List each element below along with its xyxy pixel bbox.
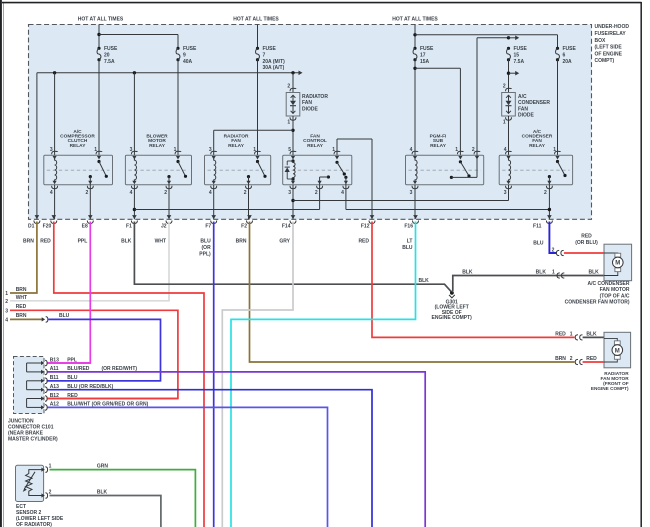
bus wire from fuse block <box>37 71 303 76</box>
wire BRN node 4 <box>5 313 43 323</box>
a/c condenser fan diode <box>502 88 516 120</box>
svg-text:40A: 40A <box>183 59 193 65</box>
radiator fan motor <box>604 332 631 368</box>
wire: bus to radiator fan diode pin 2 <box>287 73 293 93</box>
svg-text:1: 1 <box>49 463 52 469</box>
wire RED stub to radiator fan motor <box>583 361 604 363</box>
svg-text:BOX: BOX <box>595 38 607 44</box>
relay switch <box>317 151 349 188</box>
svg-text:1: 1 <box>287 120 290 126</box>
connector F7 at fuse box edge <box>205 215 216 230</box>
wire: relay pin 4 to F20 <box>54 185 56 220</box>
svg-text:A/C: A/C <box>518 94 527 100</box>
connector 1 on radiator fan motor feed <box>555 331 597 340</box>
radiator fan relay <box>205 155 271 184</box>
wire B11 BLU <box>48 380 161 382</box>
hot at all times label 1 <box>78 16 124 22</box>
wire RED from F20 down off page <box>40 222 204 527</box>
wire WHT from J2 to node 2 <box>10 222 169 301</box>
svg-text:M: M <box>615 261 620 267</box>
svg-text:2: 2 <box>287 83 290 89</box>
svg-text:BLU: BLU <box>402 245 413 251</box>
svg-text:7.5A: 7.5A <box>104 59 115 65</box>
svg-text:BRN: BRN <box>16 287 27 293</box>
svg-text:7.5A: 7.5A <box>514 59 525 65</box>
svg-text:2: 2 <box>5 299 8 305</box>
wire BLK from a/c condenser fan motor to ground <box>452 269 604 292</box>
wire BLU from node 4 connector to junction connector B11 <box>47 313 161 381</box>
svg-text:F16: F16 <box>404 224 413 230</box>
fuse 15 <box>507 46 528 65</box>
svg-text:4: 4 <box>5 318 8 324</box>
svg-text:FAN: FAN <box>518 106 528 112</box>
pgm-fi sub relay <box>406 155 484 184</box>
relay pin numbers 4/2 bottom <box>50 190 89 196</box>
junction connector internal link B13-A11 <box>27 363 42 372</box>
radiator fan diode <box>286 88 300 120</box>
svg-text:4: 4 <box>130 190 133 196</box>
relay pin numbers 3/1 top <box>130 147 177 153</box>
svg-text:RELAY: RELAY <box>149 143 166 149</box>
svg-text:DIODE: DIODE <box>302 106 319 112</box>
a/c condenser fan diode label <box>518 94 550 119</box>
relay switch <box>87 151 108 188</box>
relay pin numbers 4/2 bottom <box>209 190 247 196</box>
svg-text:2: 2 <box>164 190 167 196</box>
svg-text:CONDENSER: CONDENSER <box>518 100 550 106</box>
relay pin numbers 4/1/2 top <box>410 147 475 153</box>
relay pin numbers 3/1 top <box>50 147 97 153</box>
wire: relay pin 4 to F7 <box>213 185 215 220</box>
svg-text:1: 1 <box>552 269 555 275</box>
svg-text:PPL): PPL) <box>199 251 211 257</box>
relay coil <box>211 151 217 188</box>
ECT sensor pin 2 label <box>49 489 52 495</box>
svg-text:RELAY: RELAY <box>228 143 245 149</box>
ECT sensor 2 <box>16 465 48 501</box>
wire LT BLU from F16 down off page <box>231 222 416 527</box>
relay switch <box>246 151 267 188</box>
svg-text:30A (A/T): 30A (A/T) <box>263 65 285 71</box>
wire: relay pin 3 to F16 <box>414 185 416 220</box>
junction connector terminal B11 <box>41 375 78 384</box>
relay pin number 3 bottom <box>410 190 413 196</box>
wire: relay pin 4 to F11 junction <box>346 185 550 210</box>
a/c compressor clutch relay label <box>60 129 95 149</box>
connector F14 at fuse box edge <box>282 215 296 230</box>
node 3 label <box>5 304 26 314</box>
wire BLK stub to radiator fan motor <box>583 336 604 338</box>
connector F16 at fuse box edge <box>404 215 418 230</box>
svg-text:F11: F11 <box>533 224 542 230</box>
svg-text:1: 1 <box>570 331 573 337</box>
svg-text:M: M <box>615 348 620 354</box>
junction connector internal link B12-A12 <box>27 399 42 408</box>
wire: relay pin 2 to E8 <box>89 185 91 220</box>
wire PPL from E8 to junction connector B13 <box>47 222 91 364</box>
relay coil <box>412 151 418 188</box>
svg-text:2: 2 <box>503 83 506 89</box>
svg-text:FUSE: FUSE <box>514 46 528 52</box>
svg-text:GRY: GRY <box>279 239 290 245</box>
connector F2 at fuse box edge <box>241 215 252 230</box>
wire: fuse 15 to a/c condenser fan diode pin 2 <box>503 83 506 89</box>
wire BLU (OR PPL) from F7 down off page <box>199 222 213 527</box>
ECT sensor pin 1 label <box>49 463 52 469</box>
wire A12 BLU/WHT off page <box>48 407 328 527</box>
radiator fan diode label <box>302 94 328 112</box>
svg-text:4: 4 <box>341 190 344 196</box>
svg-text:BLK: BLK <box>586 331 597 337</box>
radiator fan motor label <box>591 371 629 391</box>
svg-text:BRN: BRN <box>16 313 27 319</box>
wire A13 BLU off page <box>48 390 373 527</box>
svg-text:FAN MOTOR: FAN MOTOR <box>600 287 630 293</box>
under-hood fuse/relay box label <box>595 24 630 64</box>
relay coil and diode <box>285 151 296 188</box>
svg-text:2: 2 <box>86 190 89 196</box>
svg-text:CONDENSER FAN MOTOR): CONDENSER FAN MOTOR) <box>565 300 630 306</box>
wire: fuse 7 output to radiator fan relay pin 1 <box>257 60 259 155</box>
svg-text:BRN: BRN <box>236 239 247 245</box>
wire BRN from F2 to radiator fan motor <box>236 222 575 363</box>
connector F12 at fuse box edge <box>361 215 375 230</box>
svg-text:WHT: WHT <box>16 295 27 301</box>
under-hood fuse/relay box (dashed) <box>29 25 592 220</box>
connector 2 on a/c condenser fan motor feed <box>552 248 564 256</box>
svg-text:F14: F14 <box>282 224 291 230</box>
connector F1 at fuse box edge <box>126 215 137 230</box>
svg-text:BLK: BLK <box>536 269 547 275</box>
connector F11 at fuse box edge <box>533 215 552 230</box>
svg-text:4: 4 <box>410 147 413 153</box>
svg-text:RED: RED <box>40 239 51 245</box>
svg-text:F1: F1 <box>126 224 132 230</box>
fuse 20 <box>97 46 118 65</box>
svg-text:BLU: BLU <box>200 239 211 245</box>
svg-text:3: 3 <box>288 190 291 196</box>
svg-text:17: 17 <box>420 52 426 58</box>
junction connector terminal A11 <box>41 366 137 375</box>
svg-text:4: 4 <box>209 190 212 196</box>
ECT sensor 2 label <box>16 504 64 527</box>
wire: relay pin 3 to F14 junction <box>293 185 509 201</box>
wire: pgm-fi sub relay pin 2 to fuse 15 <box>477 36 519 156</box>
svg-text:HOT AT ALL TIMES: HOT AT ALL TIMES <box>78 16 124 22</box>
svg-text:BLU: BLU <box>533 240 544 246</box>
ground G301 label <box>432 299 473 321</box>
wire BLU from F11 to a/c condenser fan motor connector <box>533 222 556 254</box>
svg-text:OF ENGINE: OF ENGINE <box>595 51 623 57</box>
relay pin numbers 5/1 top <box>288 147 335 153</box>
svg-text:20A (M/T): 20A (M/T) <box>263 59 286 65</box>
svg-text:3: 3 <box>410 190 413 196</box>
svg-text:F12: F12 <box>361 224 370 230</box>
relay coil <box>52 151 58 188</box>
svg-text:2: 2 <box>49 489 52 495</box>
wire: hot feed 1 to fuses 20/9 <box>97 25 178 48</box>
svg-text:F7: F7 <box>205 224 211 230</box>
fuse 6 <box>556 46 577 65</box>
junction connector terminal A12 <box>41 402 149 411</box>
svg-text:WHT: WHT <box>155 239 166 245</box>
svg-text:4: 4 <box>50 190 53 196</box>
svg-text:3: 3 <box>5 309 8 315</box>
ground G301 <box>449 291 455 298</box>
svg-text:1: 1 <box>5 291 8 297</box>
svg-text:LT: LT <box>407 239 413 245</box>
wire B12 RED <box>48 398 178 400</box>
svg-text:PPL: PPL <box>78 239 88 245</box>
svg-text:FAN: FAN <box>302 100 312 106</box>
svg-text:BLK: BLK <box>588 269 599 275</box>
wire A11 BLU/RED off page <box>48 372 426 527</box>
a/c condenser fan relay <box>499 155 572 184</box>
svg-text:FUSE: FUSE <box>563 46 577 52</box>
svg-text:BLK: BLK <box>97 489 108 495</box>
connector J2 at fuse box edge <box>161 215 172 230</box>
svg-text:2: 2 <box>244 190 247 196</box>
svg-text:GRN: GRN <box>97 463 109 469</box>
wire: fuse 6 output to a/c condenser fan relay pin 1 <box>557 60 559 155</box>
svg-text:RED: RED <box>555 331 566 337</box>
junction connector internal link B11-A13 <box>27 381 42 390</box>
fuse 9 <box>176 46 197 65</box>
wire: relay pin 2 to F2 <box>248 185 250 220</box>
junction connector C101 (dashed) <box>14 357 45 414</box>
relay coil <box>506 151 512 188</box>
wire B13 PPL <box>48 362 91 364</box>
relay switch <box>166 151 187 188</box>
junction connector terminal B12 <box>41 393 78 402</box>
svg-text:20: 20 <box>104 52 110 58</box>
svg-text:ECT: ECT <box>16 504 26 510</box>
relay pin numbers 3/2 bottom <box>504 190 547 196</box>
svg-text:(OR BLU): (OR BLU) <box>575 240 598 246</box>
wire: fan control relay pin 1 to F12 <box>337 139 372 219</box>
svg-text:E8: E8 <box>82 224 88 230</box>
svg-text:3: 3 <box>504 190 507 196</box>
wire: fuse 15 output / branch arrow <box>507 60 519 93</box>
svg-text:2: 2 <box>552 248 555 254</box>
svg-text:(OR: (OR <box>202 245 212 251</box>
connector on node 4 wire <box>42 317 48 323</box>
wire: diode junction to radiator fan relay pin 3 <box>214 130 293 155</box>
svg-text:D1: D1 <box>28 224 35 230</box>
svg-text:F20: F20 <box>43 224 52 230</box>
svg-text:RADIATOR: RADIATOR <box>302 94 328 100</box>
relay coil <box>131 151 137 188</box>
wire: relay pin 3 to F14 <box>291 185 294 220</box>
connector F20 at fuse box edge <box>43 215 57 230</box>
svg-text:BLK: BLK <box>121 239 132 245</box>
svg-text:20A: 20A <box>563 59 573 65</box>
connector 2 on radiator fan motor ground <box>555 356 597 365</box>
svg-text:ENGINE COMPT): ENGINE COMPT) <box>432 315 473 321</box>
svg-text:DIODE: DIODE <box>518 113 535 119</box>
svg-text:RED: RED <box>358 239 369 245</box>
wire: bus to a/c compressor clutch relay pin 3 <box>54 73 56 156</box>
svg-text:FUSE/RELAY: FUSE/RELAY <box>595 31 627 37</box>
wire: relay pin 2 to F11 <box>548 185 551 220</box>
svg-text:HOT AT ALL TIMES: HOT AT ALL TIMES <box>392 16 438 22</box>
svg-text:RED: RED <box>581 234 592 240</box>
svg-text:15: 15 <box>514 52 520 58</box>
svg-text:6: 6 <box>563 52 566 58</box>
relay pin numbers 4/1 top <box>504 147 557 153</box>
svg-text:2: 2 <box>570 356 573 362</box>
fan control relay <box>283 155 352 184</box>
svg-text:BLK: BLK <box>418 278 429 284</box>
svg-text:OF RADIATOR): OF RADIATOR) <box>16 522 52 527</box>
svg-text:SENSOR 2: SENSOR 2 <box>16 510 42 516</box>
relay pin numbers 3/2/4 bottom <box>288 190 344 196</box>
node 2 label <box>5 295 27 305</box>
svg-text:J2: J2 <box>161 224 167 230</box>
wire: radiator fan diode pin 1 to fan control relay pin 5 <box>287 116 294 155</box>
hot at all times label 2 <box>233 16 279 22</box>
wire: fuse 9 output to relay pin 1 <box>177 60 179 155</box>
relay pin numbers 4/2 bottom <box>130 190 168 196</box>
svg-text:RED: RED <box>16 304 27 310</box>
junction connector terminal A13 <box>41 384 114 393</box>
svg-text:UNDER-HOOD: UNDER-HOOD <box>595 24 630 30</box>
wire RED from node 3 to junction connector B12 <box>10 310 178 398</box>
fuse 17 <box>413 46 434 65</box>
radiator fan relay label <box>224 134 249 149</box>
svg-text:BLU: BLU <box>59 313 70 319</box>
relay switch <box>450 151 480 179</box>
svg-text:FUSE: FUSE <box>420 46 434 52</box>
svg-text:7: 7 <box>263 52 266 58</box>
junction connector terminal B13 <box>41 357 77 366</box>
relay switch <box>546 151 566 188</box>
svg-text:RED: RED <box>586 356 597 362</box>
wire RED from F12 to radiator fan motor <box>358 222 574 338</box>
a/c condenser fan motor label <box>565 281 630 306</box>
fan control relay label <box>303 134 327 149</box>
wire BLK from F1 to ground G301 <box>121 222 452 293</box>
junction connector C101 label <box>8 419 58 443</box>
svg-text:RELAY: RELAY <box>70 143 87 149</box>
a/c condenser fan motor <box>604 244 632 281</box>
svg-text:A/C CONDENSER: A/C CONDENSER <box>588 281 630 287</box>
svg-text:RELAY: RELAY <box>529 143 546 149</box>
wire: a/c condenser fan diode pin 1 to a/c condenser fan relay pin 4 <box>503 116 509 155</box>
svg-text:FUSE: FUSE <box>183 46 197 52</box>
wire GRN from ECT sensor off page <box>50 463 196 527</box>
svg-text:HOT AT ALL TIMES: HOT AT ALL TIMES <box>233 16 279 22</box>
svg-text:COMPT): COMPT) <box>595 58 615 64</box>
connector E8 at fuse box edge <box>82 215 94 230</box>
svg-text:MASTER CYLINDER): MASTER CYLINDER) <box>8 437 58 443</box>
wire BRN from D1 to node 1 <box>10 222 37 294</box>
wire: relay pin 2 to J2 <box>168 185 170 220</box>
svg-text:(TOP OF A/C: (TOP OF A/C <box>600 293 630 299</box>
svg-text:BRN: BRN <box>23 239 34 245</box>
pgm-fi sub relay label <box>430 134 447 149</box>
wire BLK from ECT sensor off page <box>50 489 161 527</box>
connector 1 on a/c condenser fan motor ground <box>536 269 599 278</box>
svg-text:FUSE: FUSE <box>263 46 277 52</box>
wire GRY from F14 down off page <box>222 222 293 527</box>
blower motor relay <box>125 155 191 184</box>
a/c condenser fan relay label <box>522 129 553 149</box>
wire: relay pin 4 to F1 <box>133 185 136 220</box>
svg-text:2: 2 <box>315 190 318 196</box>
wire: fuse 17 output to pgm-fi sub relay pins 4 and 1 <box>413 60 460 155</box>
svg-text:RELAY: RELAY <box>307 143 324 149</box>
svg-text:FUSE: FUSE <box>104 46 118 52</box>
svg-text:(LEFT SIDE: (LEFT SIDE <box>595 45 623 51</box>
svg-text:BLK: BLK <box>462 269 473 275</box>
hot at all times label 3 <box>392 16 438 22</box>
svg-text:(LOWER LEFT SIDE: (LOWER LEFT SIDE <box>16 516 64 522</box>
node 1 label <box>5 287 27 297</box>
svg-text:2: 2 <box>544 190 547 196</box>
svg-text:ENGINE COMPT): ENGINE COMPT) <box>591 386 629 391</box>
svg-text:RELAY: RELAY <box>430 143 447 149</box>
wire: relay pin 2 to F1 junction <box>134 185 319 210</box>
svg-text:F2: F2 <box>241 224 247 230</box>
wire: fuse 20 output to relay pin 1 <box>98 60 100 155</box>
wire RED (OR BLU) to a/c condenser fan motor <box>564 234 604 254</box>
wire: hot feed 3 to fuses 17/6 <box>413 25 557 48</box>
fuse 7 <box>256 46 286 71</box>
relay pin numbers 3/1 top <box>209 147 256 153</box>
svg-text:BRN: BRN <box>555 356 566 362</box>
wire: bus to blower motor relay pin 3 <box>133 73 135 156</box>
a/c compressor clutch relay <box>44 155 113 184</box>
svg-text:15A: 15A <box>420 59 430 65</box>
wire: hot feed 2 <box>257 25 259 48</box>
blower motor relay label <box>146 134 168 149</box>
connector D1 at fuse box edge <box>28 215 40 230</box>
svg-text:9: 9 <box>183 52 186 58</box>
svg-text:1: 1 <box>503 120 506 126</box>
wire: bus to connector D1 <box>36 73 38 220</box>
